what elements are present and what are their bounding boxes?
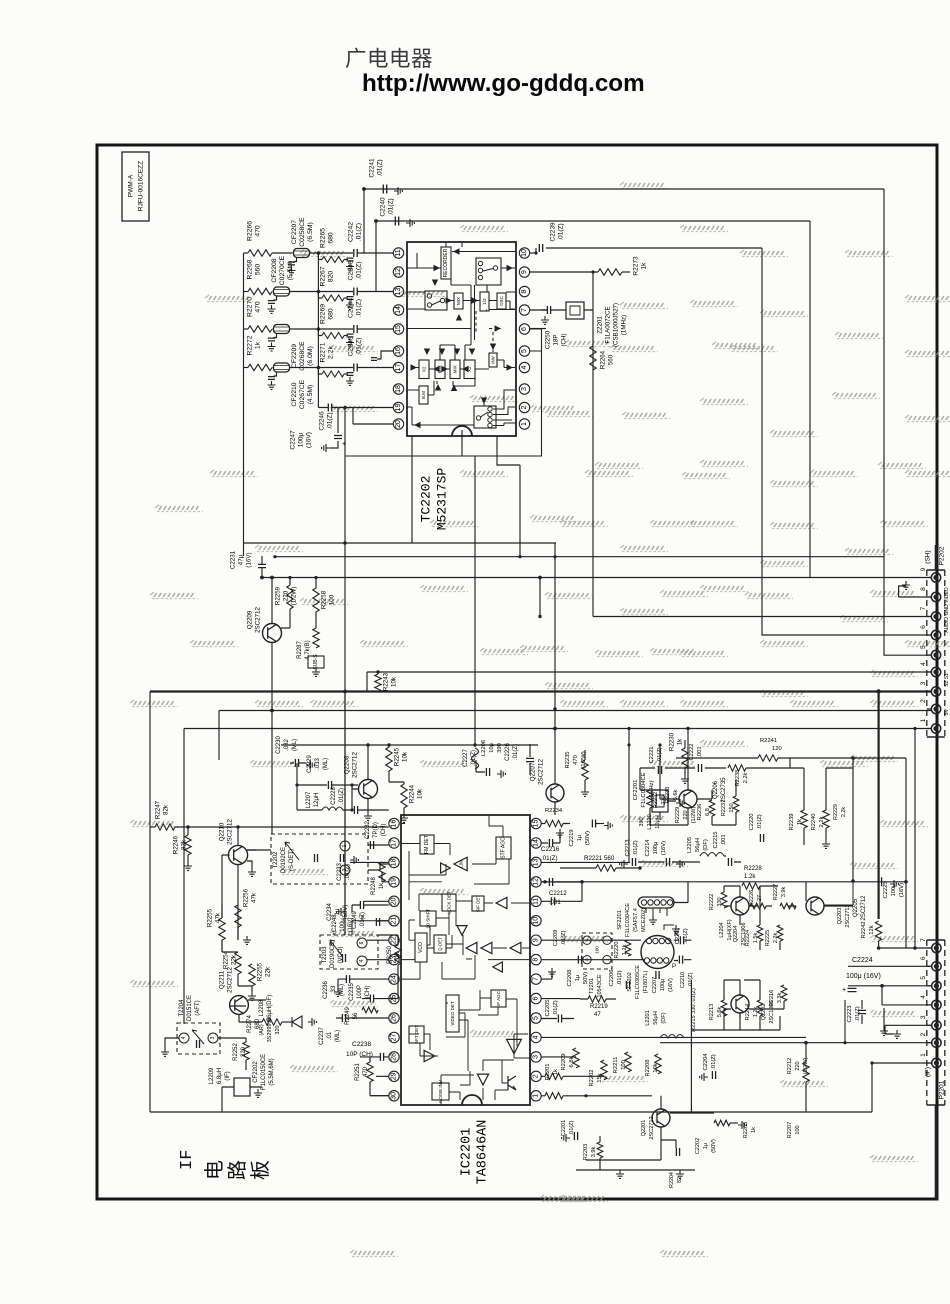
svg-text:R2202: R2202	[589, 1069, 595, 1086]
capacitor C2209 .01(Z)	[553, 930, 567, 946]
svg-text:82: 82	[677, 1177, 683, 1183]
wire left pin stubs IC2201	[364, 872, 389, 960]
svg-text:R2221 560: R2221 560	[584, 855, 615, 862]
svg-text:50V): 50V)	[583, 972, 589, 984]
svg-text:C2242: C2242	[348, 222, 355, 242]
svg-text:R2209: R2209	[561, 1053, 567, 1070]
ceramic filter CF2208	[268, 255, 295, 313]
resistor R2244 10k	[389, 782, 424, 822]
svg-text:C2238: C2238	[352, 1041, 372, 1048]
svg-text:RJFU-0016CEZZ: RJFU-0016CEZZ	[138, 161, 145, 211]
IC2201 pin 29	[389, 1071, 399, 1081]
resistor R2226 27	[749, 890, 766, 909]
connector P2202 pin 4	[931, 667, 940, 676]
wire x272 extended	[271, 711, 273, 835]
svg-text:C2202: C2202	[695, 1138, 701, 1154]
svg-text:X2: X2	[422, 366, 427, 372]
svg-text:3.9k: 3.9k	[781, 887, 787, 898]
svg-text:R2247: R2247	[155, 800, 162, 819]
wire rail y577.5 left part	[262, 577, 810, 579]
P2201 wires	[848, 948, 931, 1034]
svg-text:20: 20	[391, 897, 398, 905]
IC2202 pin 9	[519, 267, 529, 277]
capacitor C2206 .01(Z)	[609, 969, 630, 989]
svg-text:CF2202: CF2202	[253, 1061, 259, 1083]
svg-text:100: 100	[621, 1060, 627, 1070]
svg-text:1k: 1k	[641, 262, 648, 270]
IC2201 pin 30	[389, 1091, 399, 1101]
connector SP2201 bubbles	[617, 882, 688, 937]
block MIX b	[450, 360, 460, 379]
IC2202 pin 3	[519, 384, 529, 394]
svg-text:B.M: B.M	[421, 391, 426, 399]
svg-text:M52317SP: M52317SP	[435, 468, 450, 531]
transistor Q2206 2SC2735	[679, 777, 727, 808]
svg-text:D0192CE: D0192CE	[281, 847, 287, 873]
svg-text:2SC2712: 2SC2712	[227, 967, 234, 993]
svg-text:L2207: L2207	[306, 791, 312, 808]
svg-text:15: 15	[395, 325, 402, 333]
svg-text:10μ: 10μ	[489, 743, 495, 753]
wire T2204 left ground	[165, 1038, 179, 1048]
block 1/2	[480, 292, 489, 311]
IC2201 pin 13	[531, 857, 541, 867]
svg-text:100: 100	[595, 946, 600, 954]
svg-text:100μ (16V): 100μ (16V)	[846, 973, 881, 980]
capacitor C2247 100u(16V)	[290, 408, 347, 453]
svg-text:19: 19	[395, 404, 402, 412]
resistor R2238 2.2k	[728, 765, 749, 786]
svg-text:AUDIO GND VIDEO: AUDIO GND VIDEO	[944, 587, 950, 632]
svg-text:11: 11	[395, 249, 402, 256]
capacitor C2238 10P(CH)	[346, 1041, 389, 1061]
connector P2202 pin 6	[931, 630, 940, 639]
svg-text:27: 27	[391, 1033, 398, 1041]
svg-text:90 SHIFT: 90 SHIFT	[426, 909, 431, 929]
svg-text:1k: 1k	[751, 1127, 757, 1133]
IC2201 pin 17	[389, 838, 399, 848]
wire capacitor C2223 net	[844, 1000, 846, 1043]
svg-text:.01(Z): .01(Z)	[356, 299, 363, 317]
connector P2201 pin 7	[932, 943, 941, 952]
svg-text:5: 5	[521, 349, 528, 353]
svg-text:T2202: T2202	[273, 851, 279, 869]
svg-text:C2240: C2240	[380, 197, 387, 217]
wire x660 CF2201 up	[659, 745, 661, 780]
svg-text:2: 2	[920, 699, 927, 703]
svg-text:R2270: R2270	[247, 297, 254, 317]
block X2 a	[419, 360, 429, 379]
svg-text:C2232: C2232	[365, 821, 371, 839]
svg-text:100: 100	[329, 594, 336, 605]
svg-text:R2246: R2246	[173, 835, 180, 854]
svg-text:Q2205: Q2205	[853, 898, 859, 917]
capacitor C2250 18P	[541, 306, 568, 349]
svg-text:5: 5	[533, 1016, 540, 1020]
svg-text:L2209: L2209	[209, 1067, 215, 1084]
svg-text:MIX: MIX	[456, 297, 461, 305]
IC2202 pin 17	[393, 362, 403, 372]
svg-text:(6.0M): (6.0M)	[307, 346, 314, 366]
resistor R2233 5.6k	[665, 787, 679, 803]
wire Q2210 collector up	[237, 827, 239, 845]
svg-text:http://www.go-gddq.com: http://www.go-gddq.com	[362, 70, 645, 97]
svg-text:19: 19	[391, 878, 398, 886]
resistor R2255 47k	[207, 905, 226, 952]
wire to junction row 19	[290, 367, 354, 369]
svg-text:2.2k: 2.2k	[328, 345, 335, 358]
svg-text:(ML): (ML)	[323, 758, 329, 770]
svg-text:F1LA0072CE: F1LA0072CE	[605, 306, 612, 343]
svg-text:R2230: R2230	[669, 732, 676, 751]
svg-text:20: 20	[395, 420, 402, 428]
svg-text:.01(Z): .01(Z)	[356, 261, 363, 279]
svg-text:Q2203: Q2203	[837, 908, 843, 925]
wire rail y221	[376, 220, 810, 222]
wire pin29 stub	[376, 1075, 389, 1077]
IC2202 pin 2	[519, 402, 529, 412]
svg-text:(16V): (16V)	[899, 883, 905, 897]
svg-text:(5.5M,6M): (5.5M,6M)	[269, 1058, 275, 1085]
svg-text:R2265: R2265	[320, 228, 327, 248]
wire Q2202 emitter	[724, 1001, 784, 1018]
svg-text:R2228: R2228	[744, 866, 762, 872]
svg-text:100μ: 100μ	[660, 979, 666, 992]
connector P2201 pin 5	[932, 981, 941, 990]
svg-text:C2223: C2223	[847, 1005, 853, 1022]
diode D2202	[292, 1016, 302, 1028]
P2201 labels C2224	[842, 957, 881, 994]
svg-text:.001: .001	[697, 746, 703, 757]
svg-text:680: 680	[328, 232, 335, 244]
wire top rail y189	[364, 188, 884, 190]
svg-text:R2233: R2233	[665, 787, 671, 803]
svg-text:C2224: C2224	[852, 957, 873, 964]
svg-text:L2208: L2208	[259, 999, 265, 1016]
inductor L2209 6.8uH (IF)	[209, 1067, 231, 1084]
svg-text:1: 1	[342, 844, 348, 847]
svg-text:10k: 10k	[391, 676, 398, 687]
svg-text:2SC2735: 2SC2735	[721, 777, 727, 803]
block FM DET	[420, 835, 434, 854]
capacitor C2248 100u(16V)	[332, 914, 354, 936]
svg-text:R2255: R2255	[207, 908, 214, 927]
svg-text:17: 17	[395, 364, 402, 372]
triangle LIM	[454, 857, 467, 871]
svg-text:L2204: L2204	[719, 922, 725, 938]
svg-text:R2213: R2213	[709, 1004, 715, 1020]
svg-text:4: 4	[359, 959, 365, 962]
connector P2202 pin 7	[931, 612, 940, 621]
capacitor C2226 .01(Z)	[505, 743, 534, 776]
IC2201 notch	[462, 1095, 482, 1105]
svg-text:(CH): (CH)	[381, 824, 387, 837]
capacitor C2208 1u 50V	[567, 956, 589, 987]
capacitor C2235 100P (CH)	[349, 983, 389, 1003]
svg-text:R2266: R2266	[247, 221, 254, 241]
svg-text:8: 8	[920, 587, 927, 591]
svg-text:Q2210: Q2210	[219, 822, 226, 841]
resistor R2287 4.7k(B) SUB-S	[297, 618, 324, 676]
svg-text:(F1807L): (F1807L)	[643, 971, 649, 994]
board label PWM-A RJFU-0016CEZZ	[122, 152, 149, 221]
IC2202 pin 8	[519, 286, 529, 296]
svg-text:(DF): (DF)	[703, 839, 709, 851]
svg-text:1/2: 1/2	[482, 298, 487, 305]
filter CF2201 6MHz	[633, 772, 684, 820]
wire x555 corner down to Q2207	[554, 543, 556, 784]
svg-text:C0268CE: C0268CE	[299, 341, 306, 371]
svg-text:8: 8	[521, 289, 528, 293]
svg-text:R2203: R2203	[583, 1144, 589, 1160]
wire pin16 hook	[377, 351, 394, 359]
svg-text:22k: 22k	[231, 954, 238, 965]
more IC2201 internal mesh	[401, 824, 530, 1106]
svg-text:3S2999J3: 3S2999J3	[267, 1018, 273, 1043]
IC2202 pin 4	[519, 362, 529, 372]
IC2202 pin 18	[393, 384, 403, 394]
svg-text:47k: 47k	[251, 892, 258, 903]
transistor Q2207 2SC2712	[530, 707, 565, 815]
svg-text:470: 470	[255, 301, 262, 313]
svg-text:F1LC0305CE: F1LC0305CE	[635, 965, 641, 999]
wire pin7 stub gnd	[542, 972, 553, 979]
block RECORDER	[441, 247, 451, 279]
resistor R2225 2.2k	[765, 925, 783, 946]
IC2201 pin 10	[531, 916, 541, 926]
svg-text:1: 1	[920, 718, 927, 722]
IC2201 pin 16	[389, 818, 399, 828]
IC2201 pin 7	[531, 974, 541, 984]
capacitor C2232 7P(D) (CH)	[365, 821, 387, 850]
block B.M	[419, 386, 428, 404]
svg-text:R2212: R2212	[787, 1058, 793, 1074]
wire long rail pin2	[219, 710, 931, 712]
resistor R2221 560	[560, 855, 642, 871]
connector P2202 pin 1	[931, 724, 940, 733]
svg-text:100μ: 100μ	[340, 918, 346, 932]
svg-text:12μH: 12μH	[314, 793, 320, 807]
svg-text:2SC2712: 2SC2712	[227, 819, 234, 845]
resistor R2234 100	[542, 808, 571, 827]
wire corner x810 to pin9	[810, 221, 931, 578]
svg-text:6: 6	[920, 625, 927, 629]
wire x297 vertical	[296, 763, 298, 810]
transistor Q2208 2SC2712	[344, 743, 378, 820]
svg-text:12k: 12k	[869, 925, 875, 934]
resistor R2202 15k	[589, 1060, 607, 1087]
P2201 pin2 wire	[806, 1042, 931, 1044]
IC2202 pin 1	[519, 419, 529, 429]
svg-text:R2287: R2287	[297, 641, 303, 659]
svg-text:R2214: R2214	[745, 1004, 751, 1020]
svg-text:R2267: R2267	[320, 266, 327, 286]
wire Q2206 collector up	[687, 729, 689, 791]
svg-text:3: 3	[210, 1036, 216, 1039]
svg-text:(16V): (16V)	[661, 841, 667, 855]
svg-text:Q2209: Q2209	[247, 610, 254, 629]
svg-text:(AFT): (AFT)	[195, 1000, 201, 1015]
capacitor C2223 .01(Z)	[847, 1000, 866, 1024]
svg-text:R2216: R2216	[769, 990, 775, 1006]
wire x475 lower to 760	[473, 743, 476, 746]
svg-text:IF AGC: IF AGC	[496, 990, 501, 1006]
svg-text:18: 18	[391, 858, 398, 866]
block OSC	[497, 293, 506, 309]
IC2201 pin 11	[531, 896, 541, 906]
IC2201 pin 15	[531, 818, 541, 828]
resistor R2271 2.2k branch	[318, 342, 354, 385]
block X2 b	[464, 360, 475, 379]
capacitor C2244 .01(Z)	[348, 298, 394, 333]
block IF AGC	[491, 990, 506, 1007]
IC2202 pin 16	[393, 346, 403, 356]
svg-text:R2225: R2225	[765, 930, 771, 946]
ceramic filter Z2201	[562, 302, 628, 347]
svg-text:R2255: R2255	[257, 962, 264, 981]
svg-text:C2225: C2225	[883, 881, 889, 898]
transistor Q2210 2SC2712	[219, 819, 257, 877]
svg-text:C2245: C2245	[348, 336, 355, 356]
svg-text:C2244: C2244	[348, 298, 355, 318]
svg-text:R2268: R2268	[247, 259, 254, 279]
svg-text:R2264: R2264	[600, 350, 607, 369]
IC2201 pin 9	[531, 935, 541, 945]
svg-text:SUB-S: SUB-S	[313, 654, 319, 670]
svg-text:R2243: R2243	[383, 672, 390, 691]
IC2201 pin 20	[389, 896, 399, 906]
IC2202 pin 20	[393, 419, 403, 429]
connector P2201 pin 4	[932, 1000, 941, 1009]
svg-text:4: 4	[533, 1035, 540, 1039]
svg-text:L2201: L2201	[645, 1010, 651, 1026]
svg-text:47μ: 47μ	[238, 554, 245, 565]
resistor R2227 3.9k	[773, 884, 796, 909]
svg-text:820: 820	[328, 271, 335, 283]
svg-text:9: 9	[533, 938, 540, 942]
svg-text:.033: .033	[315, 758, 321, 770]
capacitor C2214 100u (16V)	[645, 839, 684, 868]
svg-text:100: 100	[795, 1125, 801, 1134]
wire x318 down to C2246	[317, 368, 319, 408]
svg-text:VIDEO DET: VIDEO DET	[450, 1001, 455, 1026]
svg-text:10k: 10k	[417, 788, 424, 799]
wire pin12 bus start	[542, 881, 546, 883]
svg-text:R2251: R2251	[355, 1063, 361, 1081]
svg-text:3: 3	[920, 1015, 927, 1019]
resistor R2219 47	[580, 996, 616, 1018]
wire Q2209 emitter down	[271, 643, 273, 711]
ceramic filter CF2202	[222, 1054, 275, 1098]
block MIX upper	[454, 293, 463, 309]
svg-text:(1/2W): (1/2W)	[291, 587, 298, 606]
resistor R2222 330	[709, 892, 727, 910]
svg-text:(5.5M): (5.5M)	[287, 261, 294, 281]
resistor R2213 5.6k	[709, 1000, 727, 1020]
svg-text:C2250: C2250	[545, 330, 552, 349]
svg-text:56μH(DF): 56μH(DF)	[267, 995, 273, 1021]
wire left vertical x150 down to board	[149, 692, 151, 1113]
capacitor C2219 1u (50V)	[569, 820, 612, 847]
triangles detector row	[481, 942, 492, 953]
block MIX a	[435, 360, 445, 379]
svg-text:7P(D): 7P(D)	[373, 822, 379, 838]
wire x915 vertical	[914, 729, 916, 949]
svg-text:路: 路	[226, 1160, 249, 1180]
capacitor C2205 .01(Z)	[542, 999, 575, 1022]
svg-text:.01(Z): .01(Z)	[558, 223, 565, 240]
capacitor C2211 .01(Z)	[675, 928, 689, 945]
svg-text:220: 220	[795, 1061, 801, 1070]
IC2201 pin 21	[389, 916, 399, 926]
svg-text:(4.5M): (4.5M)	[307, 385, 314, 405]
capacitor C2239 .01(Z)	[530, 222, 762, 255]
svg-text:.01(Z): .01(Z)	[633, 840, 639, 856]
svg-text:CF2208: CF2208	[271, 258, 278, 282]
svg-text:C2246: C2246	[319, 411, 326, 431]
svg-text:24: 24	[391, 975, 398, 983]
svg-text:5: 5	[920, 976, 927, 980]
connector P2201 pin 3	[932, 1021, 941, 1030]
resistor R2256 47k	[235, 888, 258, 944]
svg-text:LIM: LIM	[459, 860, 464, 868]
resistor R2250 1k	[387, 945, 401, 965]
capacitor C2221 .01(Z)	[649, 746, 663, 774]
IC2201 pin 6	[531, 993, 541, 1003]
svg-text:16: 16	[395, 347, 402, 355]
svg-text:.01(Z): .01(Z)	[327, 412, 334, 429]
wire vertical x364 to filter area	[363, 189, 365, 253]
svg-text:SF2201: SF2201	[617, 910, 623, 930]
svg-text:.01(Z): .01(Z)	[388, 198, 395, 215]
connector P2202 pin 9	[931, 573, 940, 582]
svg-text:T2204: T2204	[179, 999, 185, 1017]
svg-text:R2239: R2239	[789, 813, 795, 830]
svg-text:2.2k: 2.2k	[743, 773, 749, 784]
resistor R2253 22k	[248, 962, 272, 1000]
svg-text:.01(Z): .01(Z)	[757, 814, 763, 830]
svg-text:R2269: R2269	[320, 304, 327, 324]
svg-text:560: 560	[608, 354, 615, 365]
wire pin18 C2233	[350, 861, 389, 863]
svg-text:.33: .33	[331, 985, 337, 994]
svg-text:广电电器: 广电电器	[345, 47, 433, 71]
svg-text:T2201: T2201	[589, 978, 595, 994]
resistor R2209 6.8k	[561, 1048, 579, 1071]
svg-text:P: P	[672, 964, 676, 970]
IC2201 pin 18	[389, 857, 399, 867]
svg-text:6: 6	[533, 997, 540, 1001]
svg-text:LOCK DET: LOCK DET	[447, 891, 452, 914]
svg-text:6: 6	[359, 941, 365, 944]
resistor R2205 1k	[710, 1120, 757, 1138]
svg-text:14: 14	[533, 839, 540, 847]
wire left bus filter bank	[243, 253, 245, 556]
resistor R2232 270	[647, 790, 667, 808]
resistor R2269 680 branch	[318, 304, 354, 347]
wire pin6 row	[542, 998, 581, 1000]
capacitor C2231 47u(16V)	[230, 550, 267, 577]
svg-text:4: 4	[181, 1036, 187, 1039]
svg-text:R2254: R2254	[223, 950, 230, 969]
svg-text:22k: 22k	[265, 966, 272, 977]
resistor R2246 82k	[173, 825, 193, 870]
wire bus y881 long	[545, 881, 906, 883]
svg-text:R2229: R2229	[675, 807, 681, 823]
wire pin30 wire	[370, 1095, 389, 1097]
svg-text:C2213: C2213	[625, 839, 631, 856]
capacitor C2216 .01(Z)	[541, 829, 564, 862]
